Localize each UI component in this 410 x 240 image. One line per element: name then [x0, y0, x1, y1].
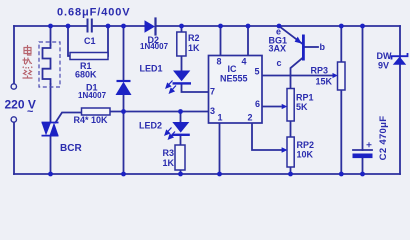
svg-text:7: 7	[210, 87, 215, 97]
svg-text:RP3: RP3	[311, 66, 329, 76]
svg-text:9V: 9V	[378, 61, 389, 71]
svg-text:1: 1	[218, 113, 223, 123]
svg-text:c: c	[277, 58, 282, 68]
svg-text:R2: R2	[188, 33, 200, 43]
svg-text:1N4007: 1N4007	[78, 91, 107, 100]
svg-text:IC: IC	[228, 64, 238, 74]
svg-text:e: e	[276, 27, 281, 37]
svg-text:1K: 1K	[188, 43, 200, 53]
svg-text:4: 4	[242, 57, 247, 67]
svg-text:R3: R3	[163, 148, 175, 158]
svg-text:680K: 680K	[75, 70, 97, 80]
svg-text:DW: DW	[377, 51, 392, 61]
svg-text:C2 470μF: C2 470μF	[378, 116, 389, 161]
svg-text:RP2: RP2	[297, 140, 315, 150]
svg-text:2: 2	[248, 113, 253, 123]
svg-text:1N4007: 1N4007	[140, 42, 169, 51]
svg-text:0.68μF/400V: 0.68μF/400V	[57, 7, 131, 19]
svg-text:5K: 5K	[296, 102, 308, 112]
svg-text:C1: C1	[84, 36, 96, 46]
svg-text:RP1: RP1	[296, 93, 314, 103]
svg-text:5: 5	[255, 67, 260, 77]
svg-text:8: 8	[217, 57, 222, 67]
svg-text:3AX: 3AX	[269, 44, 287, 54]
svg-text:LED2: LED2	[139, 121, 162, 131]
svg-text:6: 6	[255, 99, 260, 109]
svg-text:LED1: LED1	[140, 64, 163, 74]
svg-text:10K: 10K	[297, 150, 314, 160]
svg-text:b: b	[320, 42, 326, 52]
svg-text:15K: 15K	[316, 77, 333, 87]
svg-text:BCR: BCR	[60, 143, 82, 154]
svg-text:NE555: NE555	[220, 74, 248, 84]
svg-text:R4* 10K: R4* 10K	[74, 115, 109, 125]
svg-text:~: ~	[27, 106, 34, 118]
svg-text:3: 3	[210, 106, 215, 116]
svg-text:1K: 1K	[163, 158, 175, 168]
